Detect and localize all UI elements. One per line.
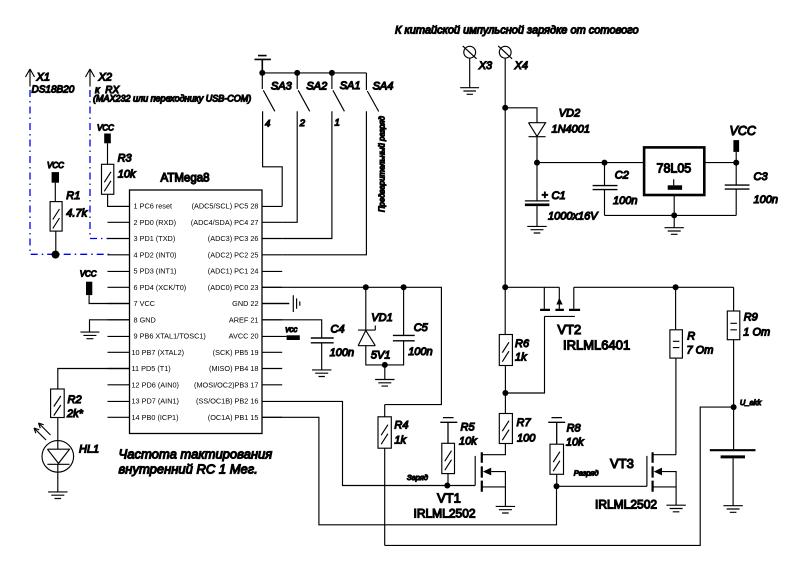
pin labels right	[191, 202, 259, 422]
svg-text:Предварительный разряд: Предварительный разряд	[377, 115, 386, 212]
node U_akk	[731, 398, 763, 410]
ground (pin 8)	[80, 320, 129, 339]
resistor R 7 Om	[670, 287, 714, 454]
svg-text:(MAX232 или переходнику USB-CO: (MAX232 или переходнику USB-COM)	[93, 94, 251, 104]
svg-text:SA1: SA1	[340, 80, 361, 92]
transistor VT1 IRLML2502	[414, 452, 506, 520]
svg-text:VT2: VT2	[557, 322, 581, 337]
svg-text:IRLML2502: IRLML2502	[414, 507, 476, 521]
ground (VT3)	[666, 505, 685, 512]
svg-text:(ADC1) PC1 24: (ADC1) PC1 24	[208, 267, 259, 276]
svg-text:SA3: SA3	[271, 81, 293, 93]
svg-text:6 PD4 (XCK/T0): 6 PD4 (XCK/T0)	[134, 283, 187, 292]
LED HL1	[34, 423, 99, 492]
capacitor C3 100n	[725, 163, 778, 216]
wire pin 15 Разряд line	[262, 417, 557, 525]
op-amp U1 ATMega8 chip body	[130, 173, 263, 434]
capacitor C5 100n	[385, 287, 433, 365]
ground (HL1)	[48, 492, 67, 499]
svg-text:(ADC0) PC0 23: (ADC0) PC0 23	[208, 283, 259, 292]
wire pin 23 rail to VD1/C5	[262, 287, 441, 404]
resistor R1 4.7k	[50, 190, 87, 255]
node R top junction	[673, 284, 679, 290]
ground (battery)	[723, 506, 742, 513]
svg-text:C4: C4	[331, 324, 345, 336]
switch SA2	[282, 73, 327, 222]
svg-text:1 Om: 1 Om	[743, 327, 770, 339]
connector X4	[498, 46, 528, 108]
svg-text:R3: R3	[118, 153, 133, 165]
node C5 junction	[401, 284, 407, 290]
svg-text:К китайской импульсной зарядке: К китайской импульсной зарядке от сотово…	[395, 25, 639, 37]
svg-text:VCC: VCC	[47, 161, 64, 170]
svg-text:10k: 10k	[459, 436, 477, 448]
svg-text:2 PD0 (RXD): 2 PD0 (RXD)	[134, 218, 177, 227]
wire regulator ground rail	[605, 214, 737, 216]
transistor VT2 IRLML6401	[505, 287, 630, 393]
svg-text:2: 2	[299, 118, 306, 129]
capacitor C4 100n	[311, 324, 354, 370]
svg-text:внутренний RC 1 Мег.: внутренний RC 1 Мег.	[119, 462, 258, 477]
pin stubs right	[262, 206, 289, 417]
node VD2/C1 junction	[534, 160, 540, 166]
svg-text:C1: C1	[552, 190, 566, 202]
net label Разряд	[574, 469, 599, 478]
svg-text:X2: X2	[98, 72, 112, 84]
voltage regulator 78L05	[644, 147, 704, 215]
svg-text:R7: R7	[517, 417, 532, 429]
svg-text:7 VCC: 7 VCC	[134, 299, 156, 308]
svg-text:VT1: VT1	[437, 491, 461, 506]
VCC symbol AVCC pin20	[285, 325, 299, 340]
svg-text:3 PD1 (TXD): 3 PD1 (TXD)	[134, 234, 176, 243]
svg-text:DS18B20: DS18B20	[32, 85, 75, 96]
svg-text:ATMega8: ATMega8	[161, 173, 210, 185]
svg-text:(ADC2) PC2 25: (ADC2) PC2 25	[208, 250, 259, 259]
wire X2 dash-dot to pin 3 TXD	[90, 90, 109, 239]
svg-text:AVCC 20: AVCC 20	[229, 332, 259, 341]
svg-text:U_akk: U_akk	[740, 398, 763, 407]
svg-text:R4: R4	[394, 420, 408, 432]
resistor R7 100	[482, 414, 536, 455]
node C3 junction	[733, 160, 739, 166]
ground (78L05)	[665, 215, 684, 234]
svg-text:AREF 21: AREF 21	[229, 315, 259, 324]
svg-text:X3: X3	[478, 60, 493, 72]
svg-text:R1: R1	[66, 190, 80, 202]
note under chip	[119, 447, 273, 477]
svg-text:10k: 10k	[566, 437, 584, 449]
node VD1/C5 ground junction	[382, 362, 388, 368]
svg-text:78L05: 78L05	[657, 162, 692, 176]
svg-text:C2: C2	[615, 170, 629, 182]
ground (C4)	[312, 370, 331, 377]
svg-text:13 PD7 (AIN1): 13 PD7 (AIN1)	[132, 397, 179, 406]
wire AREF to C4	[262, 320, 322, 338]
svg-text:1 PC6 reset: 1 PC6 reset	[134, 202, 173, 211]
svg-text:(MISO) PB4 18: (MISO) PB4 18	[209, 364, 258, 373]
resistor R2 2k*	[51, 389, 84, 441]
svg-text:1000x16V: 1000x16V	[548, 211, 599, 223]
svg-text:VT3: VT3	[610, 456, 634, 471]
svg-text:(MOSI/OC2)PB3 17: (MOSI/OC2)PB3 17	[194, 380, 258, 389]
resistor R4 1k	[378, 405, 408, 546]
svg-text:7 Om: 7 Om	[687, 345, 714, 357]
svg-text:11 PD5 (T1): 11 PD5 (T1)	[132, 364, 171, 373]
svg-text:4: 4	[265, 119, 270, 130]
node VT1 gate junction	[444, 483, 450, 489]
svg-text:1: 1	[335, 117, 340, 128]
resistor R6 1k	[499, 287, 530, 413]
zener diode VD1 5V1	[358, 287, 393, 365]
svg-text:100: 100	[517, 433, 536, 445]
VCC symbol (output)	[730, 124, 757, 163]
capacitor C1 1000x16V	[525, 163, 599, 227]
VCC symbol (R3)	[97, 124, 114, 165]
node VT2 source rail junction	[502, 284, 508, 290]
svg-text:X4: X4	[514, 60, 528, 72]
svg-text:IRLML6401: IRLML6401	[563, 338, 630, 353]
svg-text:4.7k: 4.7k	[66, 208, 87, 220]
ground (X3)	[460, 88, 479, 95]
connector X1	[26, 69, 75, 96]
wire switch bus	[262, 72, 366, 74]
pin stubs left	[108, 206, 130, 417]
ground (VD1/C5)	[375, 365, 394, 386]
svg-text:5 PD3 (INT1): 5 PD3 (INT1)	[134, 267, 177, 276]
svg-text:IRLML2502: IRLML2502	[595, 498, 657, 512]
svg-text:Частота тактирования: Частота тактирования	[119, 447, 273, 462]
svg-text:+: +	[542, 189, 549, 201]
VCC symbol (pin 7)	[80, 270, 130, 304]
switch SA3	[262, 73, 292, 207]
svg-text:100n: 100n	[613, 195, 637, 207]
svg-text:R: R	[687, 331, 695, 343]
node regulator ground junction	[671, 212, 677, 218]
svg-text:(SS/OC1B) PB2 16: (SS/OC1B) PB2 16	[196, 397, 258, 406]
svg-text:100n: 100n	[330, 347, 354, 359]
node R1 / X1 junction	[52, 251, 60, 259]
svg-text:Разряд: Разряд	[574, 469, 599, 478]
svg-text:100n: 100n	[754, 194, 778, 206]
pin labels left	[132, 202, 206, 422]
svg-text:SA4: SA4	[373, 81, 394, 93]
node R6/R7 junction	[502, 390, 508, 396]
resistor R9 1 Om	[727, 287, 770, 407]
ground (C1)	[527, 226, 546, 233]
wire X1 dash-dot to pin 4 PD2	[30, 90, 110, 254]
svg-text:(ADC3) PC3 26: (ADC3) PC3 26	[208, 234, 259, 243]
svg-text:5V1: 5V1	[371, 350, 391, 362]
svg-text:VD1: VD1	[371, 312, 392, 324]
battery GB	[710, 407, 756, 506]
svg-text:14 PB0 (ICP1): 14 PB0 (ICP1)	[132, 413, 179, 422]
node C2 junction	[602, 160, 608, 166]
svg-text:C5: C5	[414, 322, 429, 334]
wire X4 down to VT2 rail	[504, 108, 506, 287]
title note	[395, 25, 639, 37]
resistor R8 10k	[550, 423, 584, 487]
wire pin 11 to R2	[58, 369, 130, 390]
diode VD2 1N4001	[505, 108, 590, 163]
svg-text:100n: 100n	[408, 346, 432, 358]
svg-text:VCC: VCC	[97, 124, 114, 133]
wire DC rail to 78L05	[537, 162, 736, 164]
svg-text:1N4001: 1N4001	[552, 124, 591, 136]
svg-text:Заряд: Заряд	[407, 473, 428, 482]
net label Заряд	[407, 473, 428, 482]
svg-text:VCC: VCC	[730, 124, 757, 138]
svg-text:9 PB6 XTAL1/TOSC1): 9 PB6 XTAL1/TOSC1)	[134, 332, 206, 341]
switch SA4	[282, 73, 393, 255]
svg-text:10 PB7 (XTAL2): 10 PB7 (XTAL2)	[132, 348, 185, 357]
svg-text:R9: R9	[744, 312, 758, 324]
svg-text:R6: R6	[515, 338, 530, 350]
svg-text:12 PD6 (AIN0): 12 PD6 (AIN0)	[132, 380, 179, 389]
connector X2	[86, 69, 252, 104]
wire VT2 drain rail	[574, 286, 734, 288]
capacitor C2 100n	[593, 163, 638, 216]
ground (R8 top)	[548, 418, 565, 445]
resistor R5 10k	[442, 422, 477, 486]
node VD1 junction	[363, 284, 369, 290]
ground (VT1)	[496, 506, 515, 513]
svg-text:HL1: HL1	[79, 444, 99, 456]
svg-text:(ADC4/SDA) PC4 27: (ADC4/SDA) PC4 27	[191, 218, 259, 227]
node VT3 gate junction	[554, 483, 560, 489]
svg-text:R8: R8	[567, 423, 582, 435]
svg-text:X1: X1	[36, 72, 50, 84]
svg-text:10k: 10k	[118, 169, 136, 181]
node bus junctions	[259, 70, 335, 76]
ground (pin 22 GND)	[262, 295, 300, 312]
connector X3	[463, 46, 493, 88]
svg-text:(ADC5/SCL) PC5 28: (ADC5/SCL) PC5 28	[192, 202, 259, 211]
ground (switch bus)	[255, 56, 271, 73]
resistor R3 10k	[102, 153, 137, 207]
svg-text:(OC1A) PB1 15: (OC1A) PB1 15	[208, 413, 259, 422]
svg-text:GND 22: GND 22	[232, 299, 258, 308]
svg-text:vcc: vcc	[285, 325, 297, 334]
transistor VT3 IRLML2502	[595, 452, 676, 511]
svg-text:R5: R5	[461, 422, 476, 434]
svg-text:1k: 1k	[515, 352, 527, 364]
svg-text:2k*: 2k*	[66, 408, 84, 420]
svg-text:8 GND: 8 GND	[134, 315, 156, 324]
wire pin 16 Заряд line	[262, 401, 475, 485]
wire U_akk sense line	[385, 407, 734, 545]
node X4/VD2 junction	[502, 105, 508, 111]
ground (R5 top)	[440, 418, 457, 444]
svg-text:1k: 1k	[394, 435, 406, 447]
svg-text:(SCK) PB5 19: (SCK) PB5 19	[213, 348, 259, 357]
VCC symbol (R1)	[47, 161, 64, 202]
svg-text:SA2: SA2	[306, 81, 327, 93]
wire VT3 gate lead	[557, 485, 647, 487]
svg-text:R2: R2	[68, 394, 82, 406]
svg-text:C3: C3	[754, 171, 769, 183]
svg-text:VCC: VCC	[80, 270, 97, 279]
switch SA1	[282, 73, 360, 239]
svg-text:VD2: VD2	[559, 108, 580, 120]
svg-text:4 PD2 (INT0): 4 PD2 (INT0)	[134, 250, 177, 259]
